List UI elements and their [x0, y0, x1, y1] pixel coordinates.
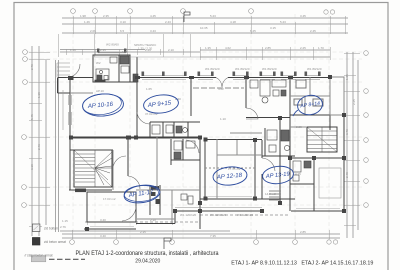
- svg-text:2.85: 2.85: [265, 46, 271, 50]
- svg-text:4.62: 4.62: [225, 46, 231, 50]
- svg-text:8.25: 8.25: [250, 29, 256, 33]
- svg-text:2.70: 2.70: [30, 64, 34, 70]
- svg-text:4.18: 4.18: [230, 20, 236, 24]
- svg-text:W2 80/60: W2 80/60: [106, 43, 119, 47]
- svg-text:2.35: 2.35: [140, 230, 146, 234]
- svg-text:1.95: 1.95: [345, 74, 349, 80]
- svg-text:W1 120/120: W1 120/120: [237, 213, 254, 217]
- svg-text:2.43: 2.43: [165, 20, 171, 24]
- svg-text:ETAJ 1- AP 8.9.10.11.12.13 E: ETAJ 1- AP 8.9.10.11.12.13 ETAJ 2- AP 14…: [231, 261, 373, 267]
- svg-text:2.25: 2.25: [296, 125, 302, 129]
- svg-text:AP 10-16: AP 10-16: [87, 101, 114, 110]
- svg-text:W2: W2: [96, 61, 101, 65]
- svg-text:2.25: 2.25: [352, 99, 356, 105]
- svg-text:4.62: 4.62: [218, 87, 224, 91]
- svg-text:W1 80/120: W1 80/120: [262, 67, 277, 71]
- svg-text:3.10: 3.10: [120, 20, 126, 24]
- svg-text:PLAN ETAJ 1-2-coordonare struc: PLAN ETAJ 1-2-coordonare structura, inst…: [76, 251, 220, 257]
- svg-text:1.35: 1.35: [205, 46, 211, 50]
- svg-text:4.25: 4.25: [295, 172, 301, 176]
- svg-text:1.15: 1.15: [62, 219, 68, 223]
- svg-text:2.35: 2.35: [100, 48, 106, 52]
- svg-text:W1 80/120: W1 80/120: [235, 67, 250, 71]
- svg-text:3.70: 3.70: [345, 129, 349, 135]
- svg-text:W1 80/120: W1 80/120: [205, 67, 220, 71]
- svg-text:2.48: 2.48: [345, 172, 349, 178]
- svg-text:W1 80/120: W1 80/120: [307, 67, 322, 71]
- svg-text:// stalpi beton armat: // stalpi beton armat: [25, 254, 53, 258]
- svg-text:2.85: 2.85: [300, 230, 306, 234]
- svg-text:3.40: 3.40: [100, 234, 106, 238]
- svg-text:3.15: 3.15: [270, 26, 276, 30]
- svg-text:2.43: 2.43: [37, 144, 41, 150]
- svg-text:2.25: 2.25: [300, 46, 306, 50]
- svg-text:1.70: 1.70: [318, 46, 324, 50]
- svg-text:1.35 / 2.20: 1.35 / 2.20: [138, 46, 153, 50]
- svg-text:7.35: 7.35: [210, 234, 216, 238]
- svg-text:6.5: 6.5: [120, 29, 125, 33]
- svg-text:AP 13-19: AP 13-19: [265, 171, 291, 180]
- svg-text:2.30: 2.30: [150, 218, 156, 222]
- svg-text:zid beton armat: zid beton armat: [44, 240, 66, 244]
- svg-text:1.10: 1.10: [220, 117, 226, 121]
- svg-text:2.35: 2.35: [103, 14, 109, 18]
- svg-text:1.46: 1.46: [70, 48, 76, 52]
- svg-text:W1 120/120: W1 120/120: [180, 213, 197, 217]
- svg-text:AP 9+15: AP 9+15: [146, 100, 172, 110]
- svg-text:17.03 m2: 17.03 m2: [103, 197, 116, 201]
- svg-text:2.08: 2.08: [90, 29, 96, 33]
- svg-text:29.04.2020: 29.04.2020: [135, 258, 160, 264]
- svg-text:3.45: 3.45: [300, 14, 306, 18]
- svg-text:zid boltari: zid boltari: [44, 227, 58, 231]
- svg-text:5.65: 5.65: [122, 50, 128, 54]
- svg-text:AP.10: AP.10: [96, 89, 104, 93]
- svg-text:3.10: 3.10: [30, 164, 34, 170]
- svg-text:1.65: 1.65: [146, 87, 152, 91]
- svg-text:AP 12-18: AP 12-18: [216, 172, 243, 181]
- svg-text:10.35: 10.35: [200, 26, 208, 30]
- svg-text:4.45: 4.45: [150, 14, 156, 18]
- svg-text:2.45: 2.45: [310, 29, 316, 33]
- svg-text:1.38: 1.38: [37, 92, 41, 98]
- svg-text:5.23: 5.23: [210, 14, 216, 18]
- svg-text:2.10: 2.10: [168, 48, 174, 52]
- svg-text:14.8 m2: 14.8 m2: [265, 192, 276, 196]
- svg-text:2.76: 2.76: [60, 225, 66, 229]
- svg-text:1.46: 1.46: [84, 20, 90, 24]
- svg-text:3.40: 3.40: [100, 218, 106, 222]
- svg-text:W1 120/120: W1 120/120: [210, 213, 227, 217]
- svg-text:3.43: 3.43: [150, 29, 156, 33]
- svg-text:5.23: 5.23: [280, 20, 286, 24]
- svg-text:1.98: 1.98: [80, 14, 86, 18]
- svg-text:5.45: 5.45: [30, 114, 34, 120]
